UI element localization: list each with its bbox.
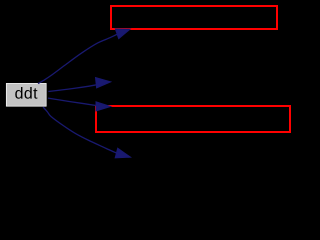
arrowhead edge ddt->invisible node A <box>96 78 111 88</box>
arrowhead edge ddt->invisible node B <box>115 148 130 158</box>
node middle (truncated, red border) <box>96 106 290 132</box>
edge ddt->invisible node B <box>43 107 116 153</box>
arrowhead edge ddt->top node <box>115 29 130 39</box>
node top (truncated, red border) <box>111 6 277 29</box>
arrowhead edge ddt->middle node <box>96 102 111 111</box>
node ddt (current node, grey) <box>6 83 46 106</box>
edge ddt->middle node <box>48 98 97 106</box>
edge ddt->top node <box>38 34 117 83</box>
edge ddt->invisible node A <box>48 85 96 92</box>
